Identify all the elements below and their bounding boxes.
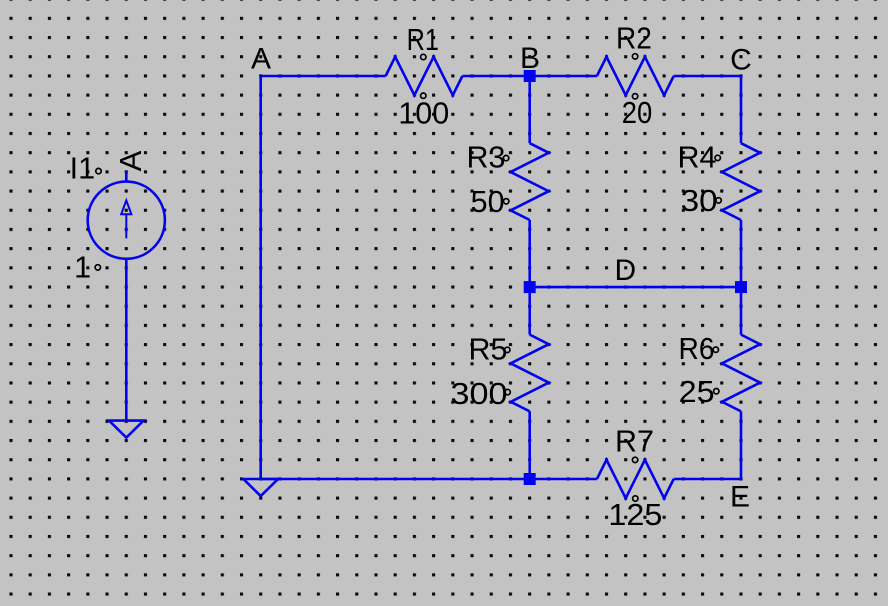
svg-text:R3: R3 [467,141,506,175]
junction node D right [735,281,747,293]
junction node B [524,70,536,82]
marker circle R7 bottom marker [633,496,638,501]
svg-text:R4: R4 [678,141,717,175]
wire R1 to B [462,75,529,78]
svg-text:R6: R6 [679,332,715,366]
wire node D left down to R5 [528,287,531,335]
marker circle R2 top marker [632,54,637,59]
svg-text:25: 25 [679,375,715,409]
svg-text:1: 1 [74,251,91,285]
svg-text:R1: R1 [407,23,439,57]
svg-text:D: D [614,254,636,287]
resistor R2 symbol [597,57,674,95]
resistor R3 symbol [511,143,549,220]
junction bottom of R5 [524,473,536,485]
wire R3 to node D left [528,220,531,287]
svg-text:300: 300 [451,377,508,411]
wire I1 to ground [125,259,128,421]
wire D (node D horizontal) [530,286,741,289]
svg-text:100: 100 [398,96,449,130]
marker circle R6 value marker [714,389,719,394]
marker circle R6 label marker [713,347,718,352]
resistor R7 symbol [597,460,674,498]
wire B to R2 [530,75,597,78]
svg-text:125: 125 [608,498,662,532]
resistor R4 symbol [722,143,760,220]
marker circle R4 label marker [715,155,720,160]
wire A down left side [259,76,262,479]
svg-text:R2: R2 [616,21,652,55]
current source I1 circle [88,182,165,259]
marker circle R7 top marker [632,457,637,462]
marker circle R2 bottom marker [632,94,637,99]
marker circle R5 value marker [505,389,510,394]
resistor R5 symbol [511,335,549,412]
wire node D right down to R6 [740,287,743,335]
svg-text:30: 30 [681,184,718,218]
wire R7 to E [674,478,741,481]
marker circle R3 label marker [503,155,508,160]
svg-text:A: A [251,43,271,76]
ground symbol at main circuit bottom left [243,479,278,496]
marker circle I1 label marker [96,168,101,173]
svg-text:R7: R7 [615,424,654,458]
svg-text:50: 50 [471,185,505,219]
marker circle R1 top marker [421,54,426,59]
current source I1 top stub [125,171,128,182]
wire C down to R4 [740,76,743,143]
wire R6 to E [740,411,743,479]
svg-text:R5: R5 [469,333,508,367]
marker circle R1 bottom marker [421,93,426,98]
current source I1 arrow [121,200,131,238]
wire R4 to node D right [740,220,743,287]
marker circle I1 value marker [95,265,100,270]
svg-text:A: A [113,150,148,171]
svg-text:B: B [520,42,540,75]
wire A to R1 left [261,75,386,78]
resistor R1 symbol [386,57,463,95]
svg-text:C: C [730,44,752,77]
junction node D left [524,281,536,293]
wire R5 to bottom junction [528,411,531,479]
svg-text:I1: I1 [70,151,95,185]
svg-text:20: 20 [622,96,653,130]
wire R2 to C [674,75,741,78]
ground symbol below I1 [109,421,144,438]
marker circle R3 value marker [504,199,509,204]
wire ground to R7 (bottom) [261,478,597,481]
resistor R6 symbol [722,335,760,412]
wire B down to R3 [528,76,531,143]
marker circle R4 value marker [716,198,721,203]
svg-text:E: E [730,480,750,513]
marker circle R5 label marker [505,347,510,352]
